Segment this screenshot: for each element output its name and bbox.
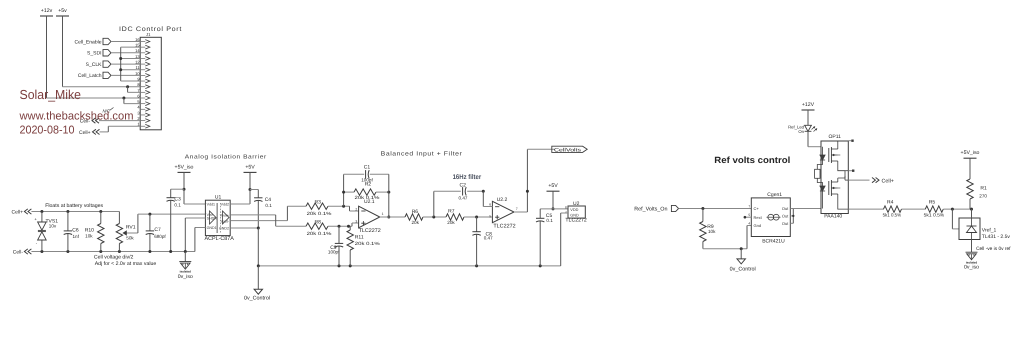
svg-text:20k 0.1%: 20k 0.1% [355,195,380,200]
svg-text:Solar_Mike: Solar_Mike [20,87,82,102]
svg-text:0v_iso: 0v_iso [964,265,979,271]
svg-text:Cell -ve is 0v ref: Cell -ve is 0v ref [976,246,1011,252]
svg-text:C6: C6 [72,227,79,233]
svg-text:8: 8 [565,206,567,210]
svg-text:Adj for < 2.0v at max value: Adj for < 2.0v at max value [95,261,157,267]
svg-text:Balanced Input + Filter: Balanced Input + Filter [381,150,463,157]
svg-text:5: 5 [748,213,750,217]
svg-text:Cgen1: Cgen1 [767,192,782,198]
svg-text:20k 0.1%: 20k 0.1% [355,241,380,246]
svg-text:6: 6 [489,202,491,206]
svg-text:5k1 0.5%: 5k1 0.5% [924,213,945,218]
svg-text:TLC2272: TLC2272 [359,228,381,234]
svg-text:Cell-: Cell- [13,250,24,256]
svg-text:1nf: 1nf [73,234,80,239]
svg-text:R5: R5 [929,199,936,205]
svg-text:R11: R11 [355,234,364,240]
svg-text:Cell_Latch: Cell_Latch [78,73,102,79]
svg-text:+12v: +12v [41,8,53,14]
svg-text:100pf: 100pf [328,250,340,255]
svg-text:Cell+: Cell+ [882,178,894,184]
svg-text:R1: R1 [980,185,987,191]
svg-text:20k 0.1%: 20k 0.1% [307,211,332,216]
svg-text:+5V: +5V [548,183,558,189]
svg-text:Vdd1: Vdd1 [207,203,215,207]
svg-text:C1: C1 [364,165,371,171]
svg-text:+5v: +5v [58,8,67,14]
svg-text:J1: J1 [146,32,151,37]
svg-text:Out: Out [782,221,789,226]
svg-text:TLC2272: TLC2272 [565,218,586,224]
svg-text:Gnd: Gnd [754,223,762,228]
svg-text:On: On [798,129,804,134]
svg-text:20k 0.1%: 20k 0.1% [307,231,332,236]
svg-text:C7: C7 [154,227,161,233]
svg-text:+5V_iso: +5V_iso [175,164,194,170]
svg-text:R10: R10 [85,227,94,233]
svg-text:4: 4 [748,221,750,225]
svg-text:0v_Control: 0v_Control [730,266,756,272]
svg-text:R4: R4 [887,199,894,205]
svg-text:Cell+: Cell+ [79,130,91,136]
svg-text:R7: R7 [448,209,455,215]
svg-text:C+: C+ [754,206,760,211]
svg-text:R6: R6 [412,209,419,215]
svg-text:Rext: Rext [754,215,763,220]
svg-text:0v_Control: 0v_Control [244,295,270,301]
svg-text:+12V: +12V [802,102,815,108]
svg-text:10k: 10k [85,234,93,239]
svg-text:S_SDI: S_SDI [87,51,101,57]
svg-text:U2: U2 [573,201,580,207]
svg-text:C2: C2 [460,183,467,189]
svg-text:+5V: +5V [245,164,255,170]
svg-text:Vref_1: Vref_1 [982,228,997,234]
svg-text:+5V_iso: +5V_iso [961,150,980,156]
svg-text:GND1: GND1 [207,226,217,230]
svg-text:0.1: 0.1 [174,202,181,207]
svg-text:Cell voltage div/2: Cell voltage div/2 [94,255,134,261]
svg-text:Floats at battery voltages: Floats at battery voltages [45,203,103,209]
svg-text:3: 3 [355,219,357,223]
svg-text:TLC2272: TLC2272 [493,224,515,230]
svg-text:U2.2: U2.2 [497,197,508,203]
svg-text:Ref volts control: Ref volts control [714,155,790,165]
svg-text:0.1: 0.1 [265,203,272,208]
svg-text:RV1: RV1 [126,225,136,231]
svg-text:270: 270 [979,193,987,198]
svg-text:Cell_Enable: Cell_Enable [75,39,102,45]
svg-text:Vdd2: Vdd2 [221,203,229,207]
svg-text:5: 5 [489,214,491,218]
svg-text:ACPL-C87A: ACPL-C87A [205,236,235,242]
svg-text:IDC Control Port: IDC Control Port [119,26,182,33]
svg-text:PAA140: PAA140 [824,213,842,219]
svg-text:OP11: OP11 [829,134,842,140]
svg-text:Cell+: Cell+ [11,210,23,216]
svg-text:Analog Isolation Barrier: Analog Isolation Barrier [185,153,267,160]
svg-text:Ref_Volts_On: Ref_Volts_On [634,206,667,212]
svg-text:10k: 10k [708,229,716,234]
svg-text:0.1: 0.1 [546,218,553,223]
svg-text:16Hz filter: 16Hz filter [453,174,482,181]
svg-text:www.thebackshed.com: www.thebackshed.com [19,110,134,122]
svg-text:0.47: 0.47 [484,236,493,241]
svg-text:7: 7 [516,207,518,211]
svg-text:680pf: 680pf [154,234,166,239]
svg-text:VDD: VDD [570,208,578,212]
svg-text:Out: Out [782,206,789,211]
svg-text:4: 4 [565,210,567,214]
svg-text:10v: 10v [49,224,57,229]
svg-text:BCR421U: BCR421U [762,239,785,245]
svg-text:20k: 20k [447,220,455,225]
svg-text:1: 1 [382,212,384,216]
svg-text:2020-08-10: 2020-08-10 [20,124,75,136]
svg-text:S_CLK: S_CLK [86,62,103,68]
svg-text:20k: 20k [412,220,420,225]
svg-text:R2: R2 [365,182,372,188]
svg-text:U1: U1 [215,195,222,201]
svg-text:TL431 - 2.5v: TL431 - 2.5v [982,234,1011,240]
svg-text:7: 7 [748,204,750,208]
svg-text:5k1 0.5%: 5k1 0.5% [883,213,902,218]
svg-text:50k: 50k [126,236,134,241]
svg-text:CellVolts: CellVolts [554,147,582,153]
svg-text:R8: R8 [315,219,322,225]
svg-text:0.47: 0.47 [459,196,468,201]
svg-text:0v_iso: 0v_iso [178,274,193,280]
svg-text:2: 2 [355,207,357,211]
svg-text:R3: R3 [315,199,322,205]
svg-text:Out: Out [782,214,789,219]
svg-text:C4: C4 [265,197,272,203]
